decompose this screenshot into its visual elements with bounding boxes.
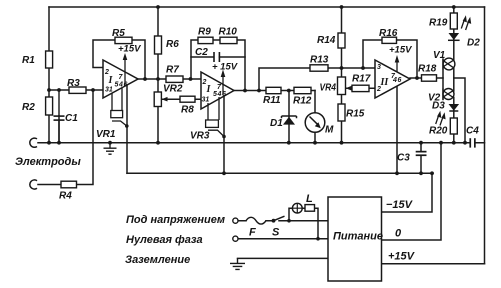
- resistor R18: [418, 64, 437, 82]
- junction dot lamp to neutral: [316, 237, 320, 241]
- electrode terminal 2: [30, 180, 37, 189]
- svg-text:2: 2: [376, 86, 381, 93]
- svg-text:R4: R4: [59, 191, 72, 202]
- wire op-amp III pin4 to -15V rail: [396, 86, 398, 173]
- wire emitter junction to C4 node: [454, 78, 465, 143]
- potentiometer VR4: [320, 77, 352, 95]
- svg-text:R13: R13: [310, 55, 329, 66]
- wire top +15V rail: [49, 6, 485, 8]
- wire VR2 wiper to R8 to op-amp II pin3: [162, 98, 201, 100]
- op-amp U3: [375, 60, 410, 98]
- resistor R3: [67, 78, 86, 93]
- junction dots R13 node: [340, 66, 365, 70]
- wire R1-R2 vertical chain: [48, 7, 50, 143]
- op-amp U1: [103, 60, 138, 98]
- junction dots op-amp I output: [143, 77, 192, 81]
- svg-text:R11: R11: [263, 95, 281, 106]
- resistor R1: [22, 51, 53, 68]
- svg-text:L: L: [306, 193, 313, 205]
- svg-text:Питание: Питание: [333, 231, 383, 243]
- resistor R10: [219, 27, 238, 44]
- wire -15V rail B: [127, 172, 433, 174]
- wire C4 leads: [465, 142, 485, 144]
- svg-text:D1: D1: [270, 118, 283, 129]
- svg-text:R19: R19: [429, 18, 448, 29]
- capacitor C1: [54, 90, 79, 143]
- wire op-amp I feedback loop R5: [93, 40, 145, 79]
- svg-text:+15V: +15V: [118, 44, 141, 55]
- wire +15V output line: [382, 263, 485, 265]
- svg-text:R18: R18: [418, 64, 437, 75]
- svg-text:D3: D3: [432, 101, 445, 112]
- wire 0V output riser: [382, 143, 442, 240]
- op-amp U3 +15V supply arrow: [389, 45, 412, 73]
- wire transistor base bar: [442, 59, 444, 100]
- resistor R14: [317, 33, 345, 48]
- resistor R12: [293, 87, 312, 106]
- svg-text:R15: R15: [346, 109, 365, 120]
- transistor V1: [433, 50, 455, 70]
- LED D2: [448, 15, 480, 48]
- svg-text:R3: R3: [67, 78, 80, 89]
- svg-text:R2: R2: [22, 102, 35, 113]
- svg-text:31: 31: [105, 87, 113, 94]
- resistor R5: [112, 28, 132, 44]
- capacitor C2: [195, 47, 220, 62]
- svg-text:V1: V1: [433, 50, 446, 61]
- resistor R20: [429, 118, 457, 137]
- svg-text:R17: R17: [352, 74, 371, 85]
- svg-text:R20: R20: [429, 126, 448, 137]
- wire op-amp I pin4 to -15V rail: [126, 85, 128, 174]
- svg-text:0: 0: [395, 228, 402, 240]
- svg-text:C3: C3: [397, 153, 410, 164]
- potentiometer VR1: [96, 88, 129, 141]
- svg-text:Под напряжением: Под напряжением: [126, 214, 225, 226]
- svg-text:46: 46: [392, 77, 402, 84]
- svg-text:C1: C1: [65, 113, 78, 124]
- resistor R8: [180, 96, 195, 115]
- junction dot op-amp III output: [415, 76, 419, 80]
- power supply box Питание: [328, 197, 383, 281]
- junction dots common rail A: [47, 141, 467, 145]
- svg-text:M: M: [325, 125, 334, 136]
- capacitor C3: [397, 151, 427, 164]
- resistor R11: [263, 87, 281, 106]
- op-amp U2 +15V supply arrow: [212, 62, 238, 96]
- resistor R6: [155, 36, 180, 54]
- potentiometer VR2: [154, 84, 183, 107]
- wire phase line to power box: [238, 220, 328, 222]
- resistor R13: [310, 55, 329, 72]
- wire earth line to power box: [238, 257, 329, 259]
- wire VR4 wiper R17 to op-amp III pin2: [347, 87, 376, 89]
- wire neutral line to power box: [238, 238, 328, 240]
- wire op-amp III feedback loop R16: [363, 40, 417, 78]
- terminal circle phase: [233, 218, 238, 223]
- switch S: [272, 216, 285, 238]
- wire R6 branch: [157, 7, 159, 79]
- svg-text:R16: R16: [379, 28, 398, 39]
- zener diode D1: [270, 116, 297, 129]
- wire common rail A (0V): [38, 142, 465, 144]
- wire op-amp III output to transistor bases: [410, 77, 443, 79]
- svg-text:C4: C4: [466, 126, 479, 137]
- wire meter branch: [314, 91, 316, 143]
- wire input node line with R3: [49, 89, 103, 91]
- op-amp U1 +15V supply arrow: [118, 44, 141, 87]
- wire op-amp I output line: [138, 78, 201, 80]
- terminal circle neutral: [233, 236, 238, 241]
- wire op-amp II pin4 to -15V rail: [223, 97, 225, 174]
- meter M: [305, 113, 334, 136]
- svg-text:+15V: +15V: [389, 45, 412, 56]
- wire V1 V2 interconnect: [453, 68, 455, 92]
- resistor R15: [338, 104, 365, 121]
- wire VR2 branch: [157, 79, 159, 143]
- wire C3 branch: [420, 143, 422, 174]
- wire right +15V vertical rail: [484, 7, 486, 264]
- svg-text:F: F: [249, 227, 256, 239]
- electrode terminal 1: [30, 138, 37, 147]
- wire D1 branch: [288, 91, 290, 143]
- svg-text:II: II: [380, 77, 390, 88]
- svg-text:31: 31: [202, 97, 210, 104]
- svg-text:VR3: VR3: [190, 131, 210, 142]
- resistor R19: [429, 13, 457, 29]
- junction dot lamp tap: [287, 219, 291, 223]
- op-amp U2: [201, 72, 234, 109]
- svg-text:Нулевая фаза: Нулевая фаза: [126, 234, 203, 246]
- junction dots op-amp II output: [243, 89, 291, 93]
- wire electrode 2 line via R4: [38, 90, 93, 185]
- junction dots top rail: [156, 5, 456, 9]
- svg-text:R9: R9: [198, 27, 211, 38]
- potentiometer VR3: [190, 97, 226, 142]
- resistor R2: [22, 97, 53, 115]
- wire -15V output riser: [382, 173, 433, 212]
- svg-text:−15V: −15V: [386, 199, 414, 211]
- svg-text:R8: R8: [181, 105, 194, 116]
- resistor R9: [198, 27, 213, 44]
- wire C1 branch: [58, 90, 60, 143]
- LED D3: [432, 101, 459, 126]
- resistor R4: [59, 181, 77, 201]
- svg-text:R14: R14: [317, 35, 336, 46]
- wire lamp branch: [289, 208, 318, 239]
- wire R13 line to op-amp III pin3: [259, 68, 375, 91]
- lamp L: [292, 193, 314, 213]
- svg-text:C2: C2: [195, 47, 208, 58]
- svg-text:R12: R12: [293, 96, 312, 107]
- resistor R7: [166, 65, 183, 83]
- resistor R17: [352, 74, 371, 92]
- svg-text:R10: R10: [219, 27, 238, 38]
- svg-text:R1: R1: [22, 55, 35, 66]
- svg-text:+ 15V: + 15V: [212, 62, 238, 73]
- ground symbol earth input: [230, 258, 245, 269]
- ground symbol common rail: [104, 143, 117, 155]
- svg-text:546: 546: [115, 82, 128, 89]
- svg-text:+15V: +15V: [388, 251, 416, 263]
- wire V2 to D3 R20 chain: [453, 98, 455, 143]
- svg-text:Заземление: Заземление: [125, 254, 190, 266]
- wire op-amp II feedback loop R9 R10: [191, 40, 245, 91]
- fuse F: [246, 217, 266, 238]
- svg-text:Электроды: Электроды: [15, 156, 81, 168]
- svg-text:VR1: VR1: [96, 129, 116, 140]
- svg-text:R7: R7: [166, 65, 179, 76]
- wire R19 D2 chain: [453, 7, 455, 61]
- svg-text:VR2: VR2: [163, 84, 183, 95]
- svg-text:VR4: VR4: [320, 83, 337, 94]
- wire op-amp II output line: [234, 90, 315, 92]
- svg-text:R6: R6: [166, 39, 179, 50]
- wire C2 feedback branch: [191, 56, 245, 58]
- svg-text:D2: D2: [467, 38, 480, 49]
- svg-text:S: S: [272, 227, 280, 239]
- junction dots rail B: [222, 171, 434, 175]
- svg-text:3: 3: [377, 64, 381, 71]
- wire R14 VR4 R15 chain: [341, 7, 343, 143]
- capacitor C4: [466, 126, 479, 148]
- junction dots input node: [47, 88, 95, 92]
- transistor V2: [428, 89, 454, 104]
- svg-text:R5: R5: [112, 28, 125, 39]
- resistor R16: [379, 28, 398, 43]
- svg-text:546: 546: [213, 91, 226, 98]
